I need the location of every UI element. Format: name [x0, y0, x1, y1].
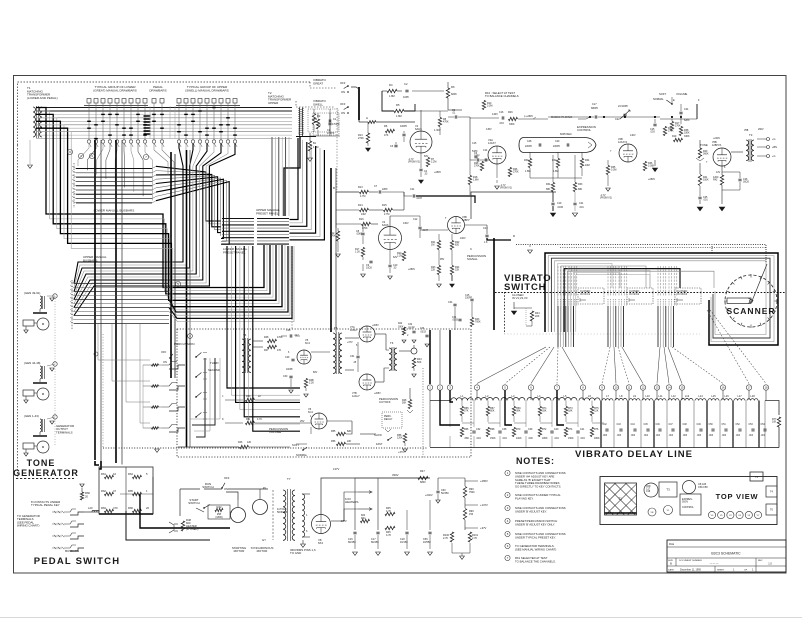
dashed box R2 C1	[308, 109, 338, 132]
svg-text:ON: ON	[341, 111, 345, 115]
svg-text:1.8M: 1.8M	[525, 170, 530, 173]
drawbar swell 1	[177, 99, 181, 104]
resistor R100	[450, 532, 453, 542]
svg-text:C31: C31	[350, 355, 355, 358]
svg-text:470K: 470K	[277, 336, 283, 339]
svg-text:R16: R16	[359, 218, 364, 221]
svg-text:R42: R42	[217, 505, 222, 509]
inductor L2	[475, 398, 499, 401]
svg-text:C18: C18	[646, 491, 651, 493]
svg-text:10M: 10M	[585, 164, 590, 167]
svg-text:470PF: 470PF	[327, 132, 335, 135]
svg-text:4.7K: 4.7K	[257, 418, 262, 421]
capacitor C10	[388, 264, 391, 266]
svg-text:12AX7A: 12AX7A	[618, 141, 628, 144]
grounds under amp middle	[550, 213, 555, 217]
delay line top bus with inductors	[430, 400, 450, 402]
scanner stem dotted a	[711, 246, 713, 253]
pedal key contact row 4	[52, 547, 62, 549]
resistor R56 22K	[337, 442, 346, 445]
transformer T1	[33, 107, 36, 137]
svg-text:(GEN 1-43): (GEN 1-43)	[24, 414, 39, 418]
svg-text:3.3M: 3.3M	[611, 169, 616, 172]
capacitor C8	[361, 232, 364, 234]
dashed edge upper busbars	[71, 280, 73, 330]
drawbar swell 6	[212, 99, 216, 104]
drawbar dense tap cluster	[144, 115, 151, 117]
svg-text:SWITCH: SWITCH	[188, 501, 199, 505]
wire fan pedal drawbars	[154, 144, 168, 176]
thick wire vibrato to A	[358, 87, 360, 120]
svg-text:270K: 270K	[474, 165, 480, 168]
resistor R26	[509, 117, 518, 120]
top view transformer T1 hatched	[605, 483, 637, 515]
dashed edge tone generator	[17, 145, 19, 478]
svg-text:R2: R2	[317, 114, 321, 118]
svg-text:SCANNER: SCANNER	[726, 306, 775, 316]
capacitor C48	[685, 428, 688, 430]
svg-text:18K: 18K	[568, 410, 573, 413]
tube V7B	[359, 374, 375, 390]
capacitor C16 series	[501, 116, 503, 119]
svg-text:BUSBARS: BUSBARS	[83, 258, 97, 262]
resistor R58 120K	[403, 434, 406, 443]
svg-text:TONE: TONE	[700, 143, 708, 147]
svg-text:CUTOFF: CUTOFF	[379, 400, 391, 404]
svg-text:22K: 22K	[431, 269, 436, 272]
capacitor C1	[328, 119, 330, 122]
svg-text:SWELL: SWELL	[313, 102, 324, 106]
svg-text:+37V: +37V	[347, 341, 353, 344]
drawbar group separators	[149, 106, 151, 138]
note 3	[505, 505, 510, 510]
node 6	[67, 149, 72, 154]
svg-text:(GEN 49-91): (GEN 49-91)	[24, 291, 40, 295]
dashed edge lower busbars	[73, 163, 75, 208]
svg-text:FAST: FAST	[376, 442, 383, 446]
resistor R30 1.8M	[528, 159, 531, 168]
svg-text:+205V: +205V	[372, 325, 379, 327]
top view circle C6D	[644, 483, 658, 497]
svg-text:C32: C32	[408, 324, 413, 326]
svg-text:220PF: 220PF	[553, 145, 561, 148]
svg-text:27K: 27K	[464, 410, 469, 413]
tube V1 6AU6	[410, 131, 432, 153]
svg-text:R55: R55	[331, 430, 336, 433]
svg-text:R46: R46	[238, 441, 243, 444]
svg-text:DOCUMENT NUMBER: DOCUMENT NUMBER	[679, 560, 702, 562]
dashed line mains	[272, 490, 274, 540]
note 6	[505, 543, 510, 548]
svg-text:C20: C20	[555, 140, 560, 143]
svg-text:18: 18	[764, 386, 768, 390]
amp feedback wires	[382, 90, 387, 92]
svg-text:220PF: 220PF	[525, 145, 533, 148]
resistor R35	[606, 166, 609, 175]
generator terminal (GEN 1-43)	[53, 415, 57, 419]
drawbar great 2	[94, 99, 98, 104]
resistor R41 100K	[698, 175, 701, 186]
capacitor C39	[524, 430, 527, 432]
wire V8 to filters	[321, 478, 355, 514]
svg-text:C19: C19	[557, 202, 562, 205]
wire row R14	[336, 209, 359, 211]
capacitor C50	[711, 428, 714, 430]
generator terminal (GEN 44-48)	[53, 362, 57, 366]
svg-text:GENERATOR: GENERATOR	[13, 468, 79, 478]
svg-text:R62: R62	[101, 489, 106, 493]
top amp bus wires	[548, 116, 590, 118]
svg-text:150PF: 150PF	[465, 297, 473, 300]
svg-text:R41: R41	[361, 517, 366, 520]
svg-text:(1800): (1800)	[215, 516, 222, 519]
svg-text:+280V: +280V	[434, 171, 441, 174]
dashed line under tone generator	[16, 478, 74, 480]
svg-text:R33: R33	[578, 183, 583, 186]
tube V8 6X4	[312, 515, 331, 534]
capacitor C54	[763, 428, 766, 430]
drawbar swell 3	[191, 99, 195, 104]
svg-text:2.2M: 2.2M	[431, 161, 436, 164]
svg-text:10PF: 10PF	[403, 96, 409, 99]
svg-text:HEATERS: HEATERS	[345, 500, 359, 504]
motor wiring	[204, 488, 222, 490]
svg-text:330K: 330K	[684, 132, 690, 135]
svg-text:10K: 10K	[772, 421, 777, 424]
svg-text:GREAT: GREAT	[313, 81, 323, 85]
drawbar great 3	[101, 99, 105, 104]
svg-text:C13: C13	[483, 227, 488, 230]
capacitor C49	[699, 428, 702, 430]
capacitor C42	[605, 428, 608, 430]
svg-text:(FROM V2): (FROM V2)	[500, 188, 512, 190]
wire fan great drawbars	[78, 144, 89, 167]
svg-text:.004: .004	[656, 435, 661, 437]
svg-text:C39: C39	[528, 428, 533, 431]
top view V1 circle	[664, 506, 673, 515]
svg-text:R48: R48	[264, 336, 269, 339]
svg-text:SLOW: SLOW	[374, 433, 382, 437]
delay line right termination	[765, 401, 779, 416]
svg-text:(FROM V2): (FROM V2)	[408, 162, 420, 164]
generator ground (GEN 1-43)	[24, 453, 28, 456]
svg-text:.004: .004	[580, 437, 585, 440]
svg-text:C41: C41	[580, 428, 585, 431]
nest preset panel to T2	[290, 138, 299, 220]
svg-text:R64: R64	[128, 472, 133, 476]
svg-text:2.7K: 2.7K	[472, 537, 477, 540]
transformer T2	[299, 108, 301, 137]
svg-text:180K: 180K	[398, 327, 404, 329]
svg-text:REV: REV	[758, 560, 763, 562]
resistor R99b	[463, 509, 466, 520]
resistor R45b	[385, 526, 395, 529]
drawbar swell 4	[198, 99, 202, 104]
svg-text:IN V1,V2,V3: IN V1,V2,V3	[512, 296, 528, 300]
svg-text:PL: PL	[263, 486, 267, 490]
svg-text:C32: C32	[476, 428, 481, 431]
svg-text:.001: .001	[703, 199, 708, 202]
svg-text:C50: C50	[709, 424, 714, 426]
title block	[667, 540, 786, 572]
svg-text:R76: R76	[594, 428, 599, 431]
magnet bar (GEN 49-91)	[23, 320, 34, 326]
magnet bar (GEN 44-48)	[23, 390, 34, 396]
svg-text:GO DIRECTLY TO KEY CONTACTS.: GO DIRECTLY TO KEY CONTACTS.	[515, 484, 562, 488]
svg-text:+137V: +137V	[480, 503, 488, 507]
svg-text:OFF: OFF	[161, 350, 167, 354]
resistor R10	[482, 101, 485, 110]
resistor R4	[387, 89, 397, 92]
svg-text:(FROM V2): (FROM V2)	[600, 198, 612, 200]
svg-text:T5: T5	[334, 326, 338, 330]
capacitor C43	[619, 428, 622, 430]
svg-text:C14: C14	[483, 149, 488, 152]
svg-text:TONE: TONE	[27, 458, 56, 468]
resistor R23 22K	[437, 266, 440, 275]
tone wheel (GEN 49-91)	[37, 318, 49, 330]
svg-text:R56: R56	[331, 440, 336, 443]
resistor R16 470K	[362, 222, 371, 225]
capacitor C5	[454, 115, 456, 118]
top view T3 box	[659, 482, 677, 497]
svg-text:360PF: 360PF	[408, 328, 415, 330]
run switch	[222, 483, 225, 488]
closed in V2C2 box	[627, 288, 653, 304]
svg-text:MOTOR: MOTOR	[257, 549, 268, 553]
drawbar pedal 2	[160, 99, 164, 104]
svg-text:.004: .004	[669, 435, 674, 437]
top view tube row	[708, 511, 715, 518]
top view T4 box a	[766, 486, 777, 497]
wire to V2A	[469, 117, 471, 160]
inductor L15	[708, 399, 719, 401]
svg-text:680PF: 680PF	[591, 107, 599, 110]
svg-text:180K: 180K	[594, 437, 600, 440]
svg-text:.004: .004	[554, 437, 559, 440]
svg-text:13: 13	[655, 386, 659, 390]
capacitor C44	[633, 428, 636, 430]
T2 bottom wire	[296, 136, 316, 138]
note 1	[505, 470, 510, 475]
svg-text:CONTROL: CONTROL	[577, 128, 592, 132]
resistor R33 68K	[573, 183, 576, 192]
svg-text:47K: 47K	[277, 349, 282, 352]
resistor R74	[564, 428, 567, 437]
svg-text:C28: C28	[286, 329, 291, 332]
svg-text:VOLUME: VOLUME	[676, 92, 688, 96]
svg-text:L13: L13	[685, 394, 690, 398]
resistor R24 22K	[450, 266, 453, 275]
resistor R13 270K	[366, 133, 369, 143]
svg-text:PEDAL SWITCH: PEDAL SWITCH	[34, 556, 121, 567]
svg-text:T4: T4	[243, 333, 247, 337]
capacitor C6	[476, 158, 478, 161]
tube V2A 12AX7	[488, 146, 506, 164]
svg-text:11: 11	[628, 386, 631, 390]
node 2	[78, 153, 83, 158]
svg-text:C54: C54	[761, 424, 766, 426]
svg-text:150K: 150K	[490, 437, 496, 440]
dashed line swell to B	[336, 108, 338, 190]
capacitor C40	[550, 430, 553, 432]
svg-text:330K: 330K	[509, 123, 515, 126]
capacitor C28	[289, 334, 291, 337]
tube V2 6AU6 percussion	[379, 227, 402, 250]
capacitor C31 interstage	[356, 355, 359, 357]
resistor R22 820	[450, 241, 453, 250]
svg-text:12K: 12K	[247, 441, 252, 444]
svg-text:.001: .001	[579, 206, 584, 209]
svg-text:95V: 95V	[440, 258, 445, 261]
svg-text:R60: R60	[85, 491, 90, 495]
svg-text:C49: C49	[697, 424, 702, 426]
title row size	[675, 558, 677, 566]
resistor R14 10M	[360, 208, 369, 211]
svg-text:CONTROL: CONTROL	[682, 506, 694, 509]
svg-text:SOFT: SOFT	[292, 443, 299, 447]
svg-text:.006: .006	[697, 435, 702, 437]
svg-text:20: 20	[146, 506, 149, 510]
tone wheel (GEN 1-43)	[37, 441, 49, 453]
V2A parts	[508, 168, 511, 177]
capacitor C38	[498, 430, 501, 432]
svg-text:270K: 270K	[675, 125, 681, 128]
inductor L3	[501, 398, 525, 401]
svg-text:12BH7: 12BH7	[462, 219, 470, 222]
svg-text:DRAWBARS: DRAWBARS	[149, 88, 166, 92]
capacitor C47	[671, 428, 674, 430]
svg-text:C21: C21	[579, 202, 584, 205]
capacitor C3	[394, 144, 397, 146]
resistor R69	[512, 407, 515, 416]
svg-text:PLAYING KEY.: PLAYING KEY.	[515, 497, 534, 501]
drawbar swell 5	[205, 99, 209, 104]
svg-text:T6: T6	[390, 341, 394, 345]
svg-text:+BN: +BN	[772, 146, 777, 149]
inductor L16	[721, 399, 732, 401]
capacitor C18	[405, 531, 408, 533]
svg-text:p +280V: p +280V	[524, 115, 533, 118]
node 3	[89, 153, 94, 158]
svg-text:.006: .006	[683, 435, 688, 437]
svg-text:TO GND: TO GND	[290, 551, 301, 555]
svg-text:50K: 50K	[490, 410, 495, 413]
svg-text:C50-C58: C50-C58	[698, 486, 708, 489]
svg-text:C30: C30	[283, 375, 288, 378]
svg-text:DATE:: DATE:	[668, 569, 675, 572]
svg-text:A: A	[366, 116, 368, 120]
capacitor C46	[658, 428, 661, 430]
inductor L4	[527, 398, 551, 401]
svg-text:3.36K: 3.36K	[648, 165, 655, 168]
svg-text:C2: C2	[404, 82, 408, 86]
svg-text:R61: R61	[101, 472, 106, 476]
svg-text:C45: C45	[644, 424, 649, 426]
percussion grounds	[289, 390, 293, 393]
svg-text:K: K	[222, 417, 224, 421]
tone wheel (GEN 44-48)	[37, 388, 49, 400]
svg-text:T7: T7	[287, 477, 291, 481]
wire box V2A output	[471, 192, 556, 219]
resistor R32 1.8M	[556, 159, 559, 168]
svg-text:(IF USED): (IF USED)	[186, 527, 198, 531]
svg-text:137V: 137V	[333, 467, 339, 471]
closed in V3C3 box	[675, 288, 701, 304]
svg-text:R51: R51	[246, 418, 251, 421]
svg-text:.0033: .0033	[420, 332, 426, 334]
capacitor C9	[369, 260, 372, 262]
capacitor C30 percussion	[289, 375, 292, 377]
svg-text:FILE: FILE	[669, 543, 674, 546]
percussion key contact rows	[143, 364, 162, 366]
resistor R45a	[385, 512, 395, 515]
drawbar swell 7	[219, 99, 223, 104]
svg-text:T3: T3	[749, 133, 753, 137]
drawbar pedal 1	[152, 99, 156, 104]
drawbar block frame lines	[84, 105, 148, 107]
bottom separator line	[0, 617, 802, 619]
resistor R73	[564, 407, 567, 416]
thick risers to percussion transformer	[330, 168, 332, 332]
T2 riser thick	[284, 137, 300, 217]
svg-text:NOTES:: NOTES:	[516, 456, 555, 466]
svg-text:+280V: +280V	[408, 268, 415, 271]
svg-text:C: C	[470, 247, 472, 251]
resistor R65	[460, 407, 463, 416]
svg-text:.0047: .0047	[416, 197, 423, 200]
inductor L12	[668, 399, 679, 401]
svg-text:IN V3/C3: IN V3/C3	[677, 293, 688, 296]
upper manual preset panel	[257, 218, 289, 220]
top view circle C8	[683, 481, 696, 494]
svg-text:12: 12	[641, 386, 645, 390]
dotted line pedal area top	[103, 447, 427, 449]
svg-text:2.2M: 2.2M	[397, 255, 402, 258]
svg-text:10Ω5: 10Ω5	[366, 267, 372, 270]
drawbar great 8	[136, 99, 140, 104]
svg-text:470K: 470K	[443, 121, 449, 124]
svg-text:SECOND: SECOND	[208, 368, 220, 372]
resistor R28 270K	[480, 162, 483, 171]
svg-text:12BH7A: 12BH7A	[712, 144, 722, 147]
svg-text:NORMAL: NORMAL	[653, 98, 664, 101]
inductor L10	[642, 399, 653, 401]
svg-text:.006: .006	[709, 435, 714, 437]
svg-text:.004: .004	[476, 437, 481, 440]
capacitor C19	[551, 202, 554, 204]
svg-text:C47: C47	[669, 424, 674, 426]
svg-text:2.7K: 2.7K	[443, 537, 448, 540]
capacitor C56	[428, 531, 431, 533]
svg-text:140V: 140V	[630, 134, 636, 137]
svg-text:2.7M: 2.7M	[384, 213, 389, 216]
capacitor C16 filter	[353, 531, 356, 533]
svg-text:R65: R65	[128, 489, 133, 493]
svg-text:.047: .047	[294, 334, 299, 337]
svg-text:39K: 39K	[516, 410, 521, 413]
tube V5B 12BH7A	[713, 148, 731, 166]
svg-text:MOTOR: MOTOR	[234, 549, 245, 553]
svg-text:60V: 60V	[424, 155, 429, 158]
svg-text:14: 14	[667, 386, 671, 390]
lower manual busbars	[76, 168, 152, 170]
resistor R75	[590, 407, 593, 416]
capacitor C60	[436, 490, 439, 492]
svg-text:51PF: 51PF	[472, 150, 478, 153]
drawbar great 4	[108, 99, 112, 104]
svg-text:R14: R14	[358, 204, 363, 207]
